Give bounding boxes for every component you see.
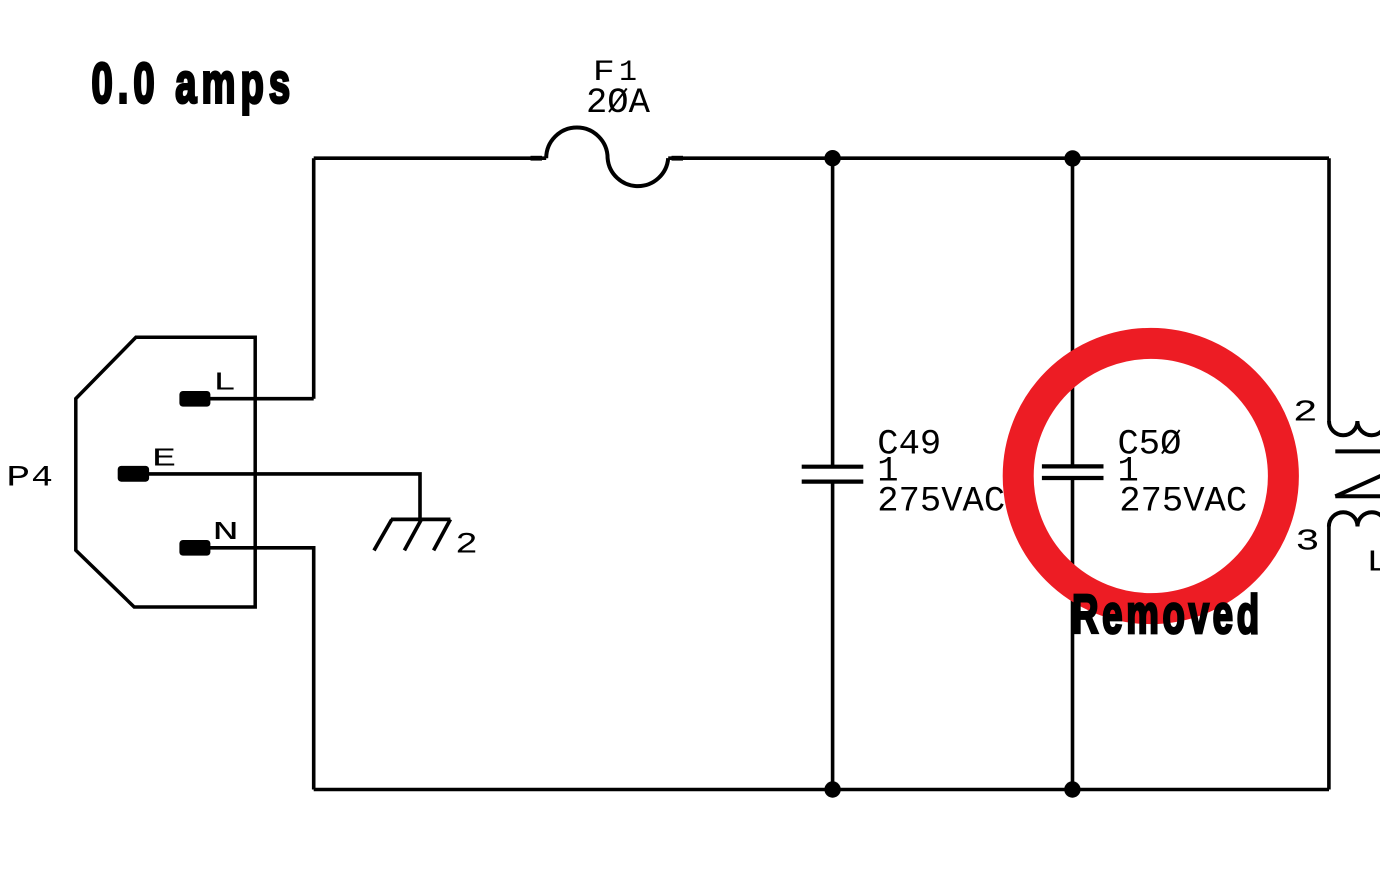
inductor L winding bottom (pin 3) xyxy=(1329,512,1380,526)
wire: L pin to left vertical xyxy=(210,397,314,401)
capacitor C50 plates xyxy=(1042,466,1104,478)
junction dot: bottom rail / C49 xyxy=(824,781,840,797)
svg-text:L: L xyxy=(1366,546,1380,581)
svg-text:2: 2 xyxy=(455,529,478,563)
svg-text:N: N xyxy=(212,517,239,547)
inductor core line 1 xyxy=(1335,449,1380,453)
svg-text:0.0 amps: 0.0 amps xyxy=(92,52,296,115)
wire: top rail from fuse to right edge xyxy=(668,156,1329,160)
connector P4 reference label xyxy=(6,461,53,495)
wire: C49 branch lower xyxy=(831,482,835,790)
wire: E pin to ground drop xyxy=(149,474,420,520)
fuse F1 symbol xyxy=(546,128,668,187)
annotation: red circle marking C50 removed xyxy=(1018,343,1283,608)
P4 pin L pad xyxy=(179,391,210,407)
annotation: 0.0 amps meter reading xyxy=(92,52,296,115)
fuse F1 reference label xyxy=(593,56,637,90)
inductor diagonal stroke xyxy=(1335,474,1380,496)
svg-text:4: 4 xyxy=(31,461,53,495)
svg-text:2ØA: 2ØA xyxy=(586,82,651,123)
svg-text:P: P xyxy=(6,461,30,495)
capacitor C49 plates xyxy=(802,467,864,482)
wire: right vertical from top rail to choke winding xyxy=(1327,158,1331,421)
svg-text:3: 3 xyxy=(1295,525,1319,560)
annotation: Removed text xyxy=(1072,583,1263,644)
wire: N pin right then down to bottom rail xyxy=(210,548,314,790)
wire: vertical from top rail down to L pin wire xyxy=(312,158,316,399)
fuse F1 pin 2 tick xyxy=(672,156,684,161)
P4 pin N pad xyxy=(179,540,210,556)
junction dot: bottom rail / C50 xyxy=(1064,781,1080,797)
wire: C50 branch lower xyxy=(1071,478,1075,790)
wire: bottom rail xyxy=(314,788,1329,792)
svg-text:L: L xyxy=(213,368,236,398)
wire: top rail left segment (node from fuse left to L vertical) xyxy=(314,156,547,160)
svg-text:Removed: Removed xyxy=(1072,583,1263,644)
P4 pin E pad xyxy=(118,466,149,482)
fuse F1 pin 1 tick xyxy=(531,156,543,161)
svg-text:E: E xyxy=(152,443,177,473)
chassis ground symbol (net 2) xyxy=(374,519,450,550)
wire: right vertical from winding down to bottom rail xyxy=(1327,527,1331,790)
junction dot: top rail / C49 xyxy=(824,150,840,166)
wire: C50 branch upper xyxy=(1071,158,1075,466)
connector P4 body outline xyxy=(76,337,255,607)
inductor L winding top (pin 2) xyxy=(1329,421,1380,435)
svg-text:275VAC: 275VAC xyxy=(877,481,1005,522)
junction dot: top rail / C50 xyxy=(1064,150,1080,166)
wire: C49 branch upper xyxy=(831,158,835,467)
svg-text:275VAC: 275VAC xyxy=(1119,481,1247,522)
inductor core line 2 xyxy=(1335,494,1380,498)
svg-text:2: 2 xyxy=(1293,396,1318,431)
